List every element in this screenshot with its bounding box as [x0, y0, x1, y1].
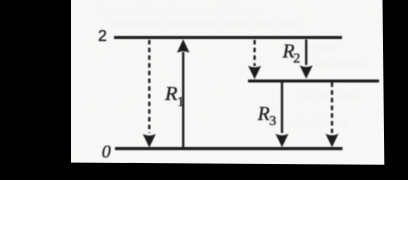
- svg-text:1: 1: [177, 95, 184, 110]
- ghost bleed-through text top: [95, 5, 367, 129]
- label R2: [282, 41, 301, 66]
- solid arrow R3: level 1 to level 0: [276, 83, 289, 148]
- svg-text:sdw adxrew: sdw adxrew: [290, 117, 348, 129]
- level 2 line: [114, 36, 342, 39]
- dashed arrow: level 1 to level 0: [326, 83, 339, 148]
- black border band right: [383, 0, 408, 180]
- label: level 0: [102, 142, 111, 162]
- level 1 line (intermediate): [248, 79, 379, 82]
- svg-text:3: 3: [269, 114, 276, 129]
- svg-text:hi sd ogdqlf smbx zx ayschf dg: hi sd ogdqlf smbx zx ayschf dgsog: [95, 5, 263, 17]
- svg-text:0: 0: [102, 142, 111, 162]
- level 0 line: [115, 147, 343, 150]
- black border band left: [0, 0, 71, 180]
- label R3: [257, 104, 277, 129]
- svg-text:sd zwfmso: sd zwfmso: [315, 59, 367, 71]
- svg-text:2: 2: [98, 28, 107, 45]
- svg-text:R: R: [164, 83, 178, 105]
- solid arrow R2: level 2 to level 1: [300, 40, 313, 79]
- label R1: [164, 83, 184, 110]
- black border band bottom: [0, 162, 408, 180]
- svg-text:R: R: [257, 104, 270, 125]
- solid arrow R1: level 0 up to level 2 (pump): [177, 39, 190, 147]
- svg-text:xw dsd adse: xw dsd adse: [300, 91, 361, 103]
- label: level 2: [98, 28, 107, 45]
- svg-text:2: 2: [293, 52, 300, 67]
- svg-text:cyd awdbc nod xsvism grzek osd: cyd awdbc nod xsvism grzek osdi dzuv: [110, 17, 300, 29]
- paper noise: [0, 0, 408, 180]
- page background: [0, 0, 408, 180]
- dashed arrow: level 2 to level 0 (spontaneous): [143, 40, 156, 148]
- dashed arrow: level 2 to level 1: [248, 40, 261, 79]
